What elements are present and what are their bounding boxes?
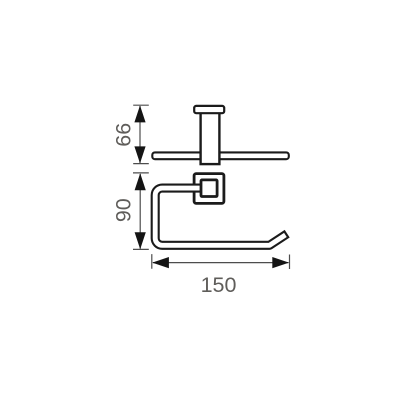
dimension 150 line bbox=[153, 262, 289, 264]
front-view ring tube outline bbox=[155, 188, 287, 245]
dimension 66 extension ticks bbox=[133, 105, 149, 163]
front-view inner mount square bbox=[201, 180, 217, 197]
dimension 66 arrow up bbox=[134, 105, 145, 122]
top-view post bbox=[201, 110, 220, 164]
dimension 90 arrow up bbox=[135, 173, 146, 190]
front-view outer mount square bbox=[194, 174, 224, 204]
dimension 150 arrow right bbox=[272, 257, 289, 268]
dimension 66 line bbox=[139, 106, 141, 163]
dimension 90 arrow down bbox=[135, 232, 146, 249]
svg-text:90: 90 bbox=[112, 198, 136, 222]
dimension 150 arrow left bbox=[152, 257, 169, 268]
front-view ring tube white core bbox=[155, 188, 285, 245]
dimension 150 extension ticks bbox=[152, 254, 290, 269]
svg-text:66: 66 bbox=[111, 123, 135, 147]
dimension 90 extension ticks bbox=[133, 173, 149, 250]
svg-text:150: 150 bbox=[201, 273, 237, 297]
dimension 66 arrow down bbox=[134, 146, 145, 163]
top-view bar (horizontal rail) bbox=[152, 152, 288, 159]
dimension 90 line bbox=[139, 174, 141, 249]
top-view cap plate bbox=[194, 106, 224, 113]
